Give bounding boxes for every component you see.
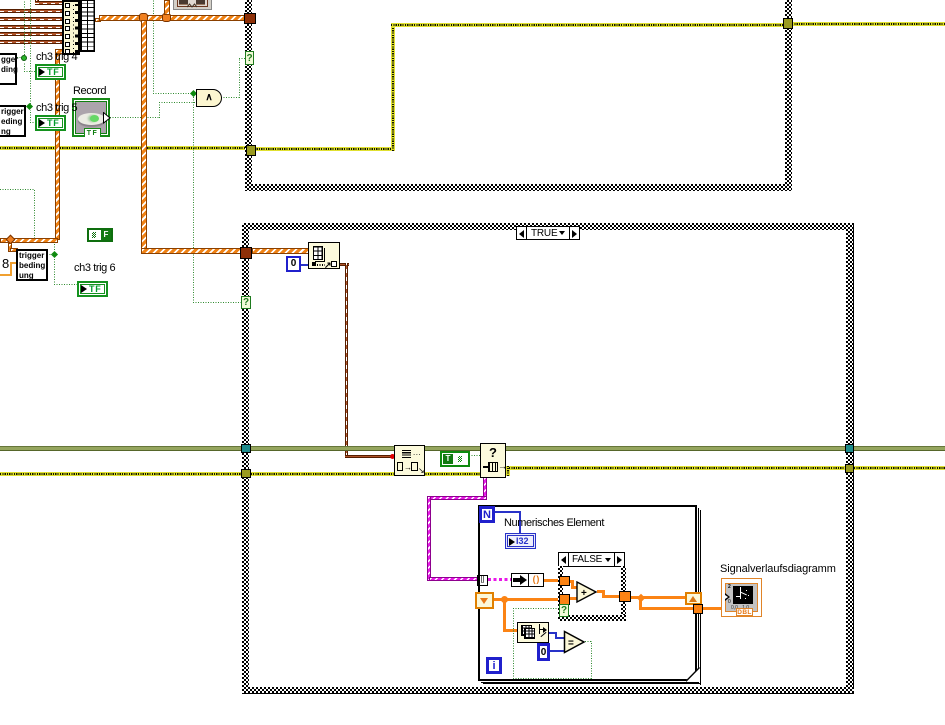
node array size — [517, 622, 549, 643]
node flush queue — [394, 445, 425, 476]
constant 0 compare — [537, 643, 550, 661]
node wire junction — [139, 13, 148, 22]
gate AND — [196, 89, 222, 107]
wire boolean — [47, 254, 53, 255]
wire hatched left vertical — [55, 50, 60, 240]
node string to number conversion — [511, 573, 544, 587]
shift register left — [475, 592, 494, 609]
subVI icon top — [173, 0, 212, 10]
wire orange false internals — [569, 580, 574, 583]
wire orange left SR to false — [494, 598, 559, 601]
top structure bottom border — [245, 184, 792, 191]
wire blue 0 to equals — [550, 650, 567, 652]
label Numerisches Element — [504, 517, 604, 529]
tunnel error olive right2 — [845, 464, 854, 473]
node coercion dot — [390, 454, 395, 459]
wire blue N to I32 — [495, 511, 521, 513]
wire boolean — [17, 57, 21, 58]
for loop border — [478, 505, 697, 681]
tunnel orange loop out — [693, 604, 703, 614]
wire hatched main vertical — [141, 20, 147, 252]
wire boolean down to case tunnel — [193, 96, 194, 303]
node junction — [501, 596, 508, 603]
wire blue array size to equals — [549, 632, 557, 634]
case FALSE bottom border — [558, 615, 626, 621]
label box triggerbedingung — [16, 249, 48, 281]
tunnel orange 1 — [559, 576, 570, 586]
wire hatched to case tunnel — [141, 248, 243, 254]
wire error inside top structure — [252, 147, 392, 151]
label ch3 trig 6 — [74, 262, 115, 274]
wire orange conv to false case — [544, 579, 560, 582]
terminal TF ch3 trig 4 — [35, 64, 66, 80]
constant 0 index — [286, 256, 301, 272]
wire boolean dotted v2 — [30, 0, 31, 104]
wire hatched case to index node — [252, 248, 309, 254]
tunnel queue teal left — [241, 444, 251, 453]
tunnel error olive — [246, 145, 256, 156]
case structure TRUE left border — [242, 223, 249, 694]
top structure left border — [245, 0, 252, 191]
wire cluster bus 3 — [0, 25, 63, 29]
case structure FALSE selector — [558, 552, 625, 567]
wire cluster hatched connector out — [95, 18, 101, 22]
boolean button Record — [72, 98, 110, 137]
wire queue refnum full width — [0, 446, 945, 451]
label Record — [73, 85, 106, 97]
wire boolean from record — [110, 117, 160, 118]
label ch3 trig 5 — [36, 102, 77, 114]
wire boolean chain to trig6 — [0, 189, 35, 190]
tunnel queue teal right — [845, 444, 854, 453]
node add — [576, 581, 599, 604]
wire boolean — [30, 110, 31, 123]
label Signalverlaufsdiagramm — [720, 563, 836, 575]
tunnel error olive left — [241, 469, 251, 478]
wire string magenta — [483, 477, 487, 500]
wire cluster bus 5 — [0, 40, 63, 44]
selector label TRUE — [516, 226, 580, 240]
wire string array from index node — [339, 263, 349, 266]
case FALSE right border — [621, 566, 626, 620]
wire cluster bus 2 — [0, 17, 63, 21]
wire cluster bus 4 — [0, 32, 63, 36]
case FALSE left border — [558, 566, 563, 620]
case structure TRUE bottom border — [242, 687, 854, 694]
wire string dashed — [488, 578, 512, 581]
top structure right border — [785, 0, 792, 191]
terminal waveform chart DBL — [721, 578, 762, 617]
node junction — [637, 594, 645, 602]
wire boolean — [30, 122, 35, 123]
svg-text:=: = — [568, 638, 574, 649]
tunnel cluster dark red — [244, 13, 256, 24]
case structure TRUE top border — [242, 223, 854, 230]
label box trigger partial 1 — [0, 53, 17, 85]
tunnel selector question — [559, 604, 569, 617]
tunnel orange 2 — [559, 594, 570, 605]
wire hatched branch to box — [8, 243, 12, 252]
terminal TF ch3 trig 5 — [35, 115, 66, 131]
label box trigger partial 2 — [0, 105, 26, 137]
shift register right — [685, 592, 702, 605]
wire boolean — [24, 71, 35, 72]
constant T boolean — [440, 451, 470, 467]
node junction diamond — [190, 90, 197, 97]
tunnel boolean question on case — [241, 296, 251, 309]
wire blue 0 to index node — [300, 264, 309, 266]
tunnel cluster dark red on case — [240, 247, 252, 259]
wire boolean dotted v1 — [24, 0, 25, 55]
terminal N count — [479, 506, 495, 523]
wire hatched up — [164, 0, 170, 15]
node index array — [308, 242, 340, 269]
connector pane right block — [80, 0, 95, 52]
terminal i iteration — [486, 657, 502, 674]
for loop dog ear — [686, 666, 700, 682]
node dequeue element — [480, 443, 506, 478]
node equal — [563, 630, 588, 655]
label 8 — [2, 256, 9, 271]
wire boolean — [24, 62, 25, 72]
node junction diamond — [26, 103, 33, 110]
wire thin orange — [0, 274, 11, 276]
case structure TRUE right border — [846, 223, 853, 694]
node junction circle — [21, 55, 27, 61]
wire orange false out to shift register — [631, 596, 687, 599]
wire boolean — [25, 107, 28, 108]
wire boolean long v — [153, 0, 154, 94]
terminal I32 — [505, 533, 536, 549]
wire cluster bus 1 — [0, 9, 63, 13]
node junction diamond — [51, 251, 58, 258]
tunnel orange out — [619, 591, 631, 602]
connector pane left block — [62, 0, 80, 55]
terminal TF ch3 trig 6 — [77, 281, 108, 297]
mouse cursor — [103, 112, 111, 124]
constant F — [87, 228, 113, 242]
wire cluster top elbow — [35, 0, 39, 4]
node wire junction diamond — [6, 235, 16, 245]
wire boolean AND out — [221, 97, 240, 98]
tunnel error olive right — [783, 18, 793, 29]
wire hatched bottom horizontal — [0, 238, 58, 243]
wire boolean equals loop — [585, 641, 592, 642]
wire error middle — [0, 472, 480, 476]
tunnel auto-index — [477, 575, 488, 586]
tunnel boolean question — [245, 51, 254, 65]
svg-text:+: + — [581, 588, 587, 599]
wire boolean T const to dequeue — [469, 455, 480, 456]
label ch3 trig 4 — [36, 51, 77, 63]
wire error cluster left — [0, 146, 245, 150]
